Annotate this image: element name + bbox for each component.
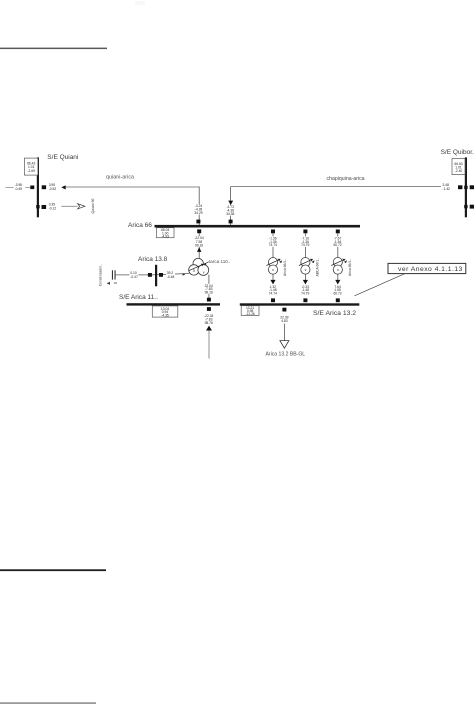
wire feeder: [61, 205, 77, 207]
svg-text:∨: ∨: [304, 268, 306, 272]
svg-text:Quiani 66: Quiani 66: [91, 198, 95, 213]
node square below Arica66 bus T2: [303, 230, 307, 234]
svg-text:Arica 13.8: Arica 13.8: [138, 256, 168, 263]
node square left of 13.8 bus: [148, 273, 152, 277]
svg-text:-0.47: -0.47: [130, 275, 138, 279]
busbar S/E Quibor: [465, 157, 467, 217]
value label T3 LV: [333, 285, 342, 296]
value label left stub: [14, 183, 26, 192]
svg-text:98.76: 98.76: [205, 321, 213, 325]
result box S/E Arica 11: [152, 306, 178, 318]
wire load down: [283, 324, 285, 341]
svg-text:Condensador..: Condensador..: [98, 264, 102, 286]
label arrow T3: [344, 260, 347, 263]
value label 3W LV: [204, 284, 214, 295]
value label drop chapiquina line: [226, 205, 235, 216]
svg-text:S/E Quibor..: S/E Quibor..: [441, 149, 474, 156]
result box Arica 66: [157, 228, 175, 239]
arrowhead flow down T1: [270, 280, 275, 285]
arrowhead flow up into Arica66: [197, 247, 201, 252]
tap arrow T1: [267, 260, 280, 266]
busbar S/E Quiani: [37, 157, 39, 217]
callout leader line: [355, 274, 406, 296]
label arrow T1: [279, 260, 282, 263]
svg-text:S/E Arica 11..: S/E Arica 11..: [119, 294, 158, 301]
transformer T2 (2 windings): [301, 258, 310, 275]
arrowhead flow down T2: [303, 280, 308, 285]
arrowhead flow down chapiquina: [228, 201, 233, 205]
svg-text:-1.42: -1.42: [443, 187, 451, 191]
arrowhead flow down T3: [335, 280, 340, 285]
svg-text:Arica 66/1..: Arica 66/1..: [283, 259, 287, 276]
wire T1 HV: [272, 233, 274, 257]
winding marks 3W: [193, 268, 205, 274]
svg-text:-2.69: -2.69: [27, 169, 35, 173]
value label T1 HV: [268, 236, 277, 247]
svg-text:∨: ∨: [272, 268, 274, 272]
node square right of Quibor bus conn2: [470, 205, 474, 209]
result box S/E Arica 13.2: [241, 306, 259, 316]
value label capacitor branch: [130, 270, 139, 278]
svg-text:tarca 110..: tarca 110..: [209, 259, 230, 264]
wire left stub to edge (quiani export): [6, 186, 31, 188]
svg-text:60.72: 60.72: [333, 243, 341, 247]
value label drop quiani line: [194, 204, 203, 215]
svg-text:Arica 66/1..: Arica 66/1..: [348, 259, 352, 276]
header rule: [0, 48, 107, 50]
svg-text:74.74: 74.74: [269, 243, 277, 247]
wire 3W HV: [198, 233, 200, 259]
svg-text:-0.12: -0.12: [49, 206, 57, 210]
node square feeder terminal: [42, 205, 47, 209]
callout box ver Anexo 4.1.1.13: [388, 263, 466, 273]
node square left of Quibor bus: [458, 185, 462, 189]
wire to capacitor: [116, 274, 149, 276]
wire T1 LV: [272, 274, 274, 280]
value label quiani-arica near Quiani: [49, 183, 57, 191]
svg-text:ABCA 66/1..: ABCA 66/1..: [315, 258, 319, 277]
svg-text:Arica 66: Arica 66: [128, 222, 152, 229]
wire 3W MV to Arica 13.8: [152, 274, 190, 275]
arrowhead flow into Quiani bus: [61, 185, 65, 189]
node square left of Quiani bus: [30, 186, 34, 190]
node square above bus (quiani line): [196, 220, 200, 224]
busbar S/E Arica 13.2: [240, 303, 359, 305]
node square on Quiani bus: [36, 205, 39, 208]
value label T3 HV: [333, 236, 342, 247]
load arrow Arica 13.2 BB-GL: [280, 341, 289, 349]
transformer T1 (2 windings): [268, 258, 277, 275]
svg-text:4.83: 4.83: [281, 319, 288, 323]
footer rule lower: [0, 702, 96, 704]
wire chapiquina-arica: [231, 186, 441, 188]
busbar Arica 66: [155, 225, 361, 228]
svg-text:ver Anexo 4.1.1.13: ver Anexo 4.1.1.13: [398, 266, 463, 273]
svg-text:74.74: 74.74: [269, 292, 277, 296]
node square above Arica11 bus: [207, 298, 211, 302]
value label load: [280, 315, 289, 323]
wire drop from chapiquina-arica to Arica 66 bus: [230, 187, 232, 227]
transformer 3W tarca 110 (three circles): [189, 258, 209, 275]
node square above 13.2 bus T1: [271, 298, 275, 302]
svg-text:74.79: 74.79: [301, 243, 309, 247]
svg-text:99.16: 99.16: [205, 291, 213, 295]
svg-text:-12.26: -12.26: [245, 312, 255, 316]
busbar Arica 13.8: [155, 265, 157, 287]
value label feeder: [49, 202, 57, 210]
svg-text:-2.40: -2.40: [455, 169, 463, 173]
node square right of Quiani bus (line quiani-arica terminal): [42, 185, 46, 189]
value label chapiquina near Quibor: [443, 183, 451, 191]
svg-text:60.72: 60.72: [333, 292, 341, 296]
value label Arica11 feeder: [203, 314, 214, 325]
wire T2 LV: [304, 274, 306, 280]
node square below Arica66 bus at x=199: [197, 229, 201, 233]
label arrow T2: [312, 260, 315, 263]
svg-text:quiani-arica: quiani-arica: [106, 174, 134, 180]
wire T2 HV: [304, 233, 306, 257]
svg-text:∨: ∨: [337, 268, 339, 272]
svg-text:74.79: 74.79: [301, 292, 309, 296]
value label T2 LV: [301, 285, 310, 296]
result box S/E Quibor: [452, 159, 465, 175]
footer rule upper: [0, 569, 106, 571]
svg-text:-4.93: -4.93: [161, 234, 169, 238]
node square on Quibor bus conn1: [464, 186, 467, 189]
tap arrow T3: [331, 260, 344, 266]
node square right of 13.8 bus: [159, 273, 163, 277]
svg-text:S/E Arica 13.2: S/E Arica 13.2: [313, 310, 356, 317]
node square below 13.2 bus (load): [282, 308, 286, 312]
svg-text:-0.48: -0.48: [167, 275, 175, 279]
node square above bus (chapiquina line): [229, 220, 233, 224]
svg-text:99.16: 99.16: [195, 243, 203, 247]
wire line quiani-arica: [66, 186, 200, 188]
value label 3W HV: [194, 236, 204, 247]
svg-text:S/E Quiani: S/E Quiani: [47, 154, 78, 161]
svg-text:-0.52: -0.52: [49, 187, 57, 191]
node square above 13.2 bus T2: [303, 298, 307, 302]
value label T2 HV: [301, 236, 310, 247]
node square below Arica66 bus T3: [336, 230, 340, 234]
value label T1 LV: [268, 285, 277, 296]
svg-text:chapiquina-arica: chapiquina-arica: [327, 176, 365, 182]
svg-text:34.38: 34.38: [226, 212, 234, 216]
top smudge: [135, 1, 145, 5]
wire T3 HV: [337, 233, 339, 257]
wire T3 LV: [337, 274, 339, 280]
svg-text:Arica 13.2 BB-GL: Arica 13.2 BB-GL: [266, 351, 306, 357]
label tarca 110 with leader: [204, 259, 231, 265]
arrowhead flow up into Arica11: [206, 326, 212, 331]
node square below Arica11 bus: [207, 307, 211, 311]
result box S/E Quiani: [24, 158, 38, 175]
tap arrow through 3W transformer: [189, 264, 204, 271]
svg-text:-0.49: -0.49: [15, 187, 23, 191]
node square above 13.2 bus T3: [336, 298, 340, 302]
wire 3W LV down: [208, 275, 210, 298]
transformer T3 (2 windings): [333, 258, 342, 275]
node square on Quibor bus conn2: [464, 205, 467, 208]
node square below Arica66 bus T1: [271, 230, 275, 234]
wire external feeder down: [208, 331, 210, 359]
svg-text:-4.35: -4.35: [161, 314, 169, 318]
tap arrow T2: [299, 260, 312, 266]
busbar S/E Arica 11: [127, 303, 221, 305]
svg-text:34.29: 34.29: [194, 211, 202, 215]
external grid arrow Quiani: [78, 204, 85, 209]
capacitor Condensadores (shunt): [107, 270, 118, 285]
node square right of Quibor bus conn1: [470, 185, 474, 189]
wire drop from quiani-arica to Arica 66 bus: [198, 187, 200, 226]
svg-text:∨: ∨: [202, 271, 204, 275]
value label 3W MV: [166, 270, 175, 278]
arrowhead flow into 3W MV: [183, 273, 186, 275]
